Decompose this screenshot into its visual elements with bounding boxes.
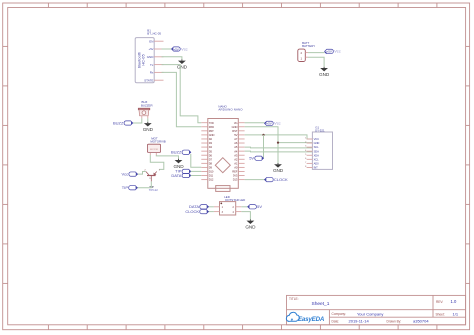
svg-text:GND: GND [143, 127, 154, 132]
svg-text:SDA: SDA [314, 149, 320, 153]
svg-text:6: 6 [305, 158, 306, 160]
svg-text:GND: GND [232, 125, 238, 129]
wire Vcc flag to transistor pin2 [138, 172, 146, 175]
svg-text:Date:: Date: [332, 319, 340, 323]
svg-text:STATE: STATE [144, 78, 153, 82]
svg-text:Rx: Rx [150, 71, 154, 75]
svg-text:5V: 5V [249, 156, 254, 161]
gyroscope module G1 GY-521 [305, 126, 332, 170]
net flag CLOCK at LED [185, 209, 208, 214]
pin stub 1 of buzzer [141, 116, 143, 119]
svg-text:1.0: 1.0 [451, 299, 457, 304]
pin stub Vin of Nano (right) [238, 122, 244, 124]
wire +5v pin to +5V flag [162, 48, 172, 50]
pin stub 1 of motor [149, 153, 151, 155]
pin stub D6 of Nano (left) [201, 154, 208, 156]
svg-text:RST: RST [209, 129, 214, 133]
svg-text:EN: EN [149, 39, 153, 43]
wire Nano A5 to GY-521 SCL [245, 146, 313, 149]
net flag 5V at LED [248, 204, 263, 209]
svg-text:Tx: Tx [150, 63, 154, 67]
svg-text:+5V: +5V [326, 50, 331, 54]
pin stub SCL of G1 [307, 146, 313, 148]
pin stub A4 of Nano (right) [238, 150, 244, 152]
svg-text:7: 7 [305, 162, 306, 164]
svg-text:GND: GND [245, 225, 256, 230]
wire buzzer pin2 to ground [147, 118, 149, 122]
wire LED pin4 to ground [241, 212, 250, 220]
svg-text:Sheet:: Sheet: [436, 312, 445, 316]
bluetooth module B1 BT_HC-05 [135, 29, 163, 83]
net flag +5V (Vcc) at Nano Vin [265, 121, 281, 126]
ground at B1 [177, 59, 188, 69]
wire BUZZ flag to Nano D9 [191, 154, 202, 167]
svg-text:8: 8 [305, 166, 306, 168]
pin stub 4 of LED [236, 211, 242, 213]
svg-text:3: 3 [305, 146, 306, 148]
svg-text:Drawn By:: Drawn By: [387, 319, 402, 323]
wire DATA flag to Nano D11 [191, 175, 202, 177]
pin stub Rx of B1 [154, 71, 163, 73]
svg-text:BUZZ: BUZZ [113, 120, 124, 125]
svg-text:INT: INT [314, 166, 318, 170]
pin stub D13 of Nano (right) [238, 179, 244, 181]
EasyEDA logo [286, 312, 324, 323]
svg-text:BUZZER: BUZZER [141, 103, 153, 107]
pin stub A3 of Nano (right) [238, 154, 244, 156]
pin stub RST of Nano (left) [201, 130, 208, 132]
ground at Nano [273, 163, 284, 173]
wire junction down to 5V flag [263, 135, 265, 158]
wire Nano A4 to GY-521 SDA [245, 150, 313, 153]
wire battery pin1 to ground [308, 57, 324, 67]
wire Tx of B1 to TXD of Nano [162, 65, 202, 123]
ground at motor [173, 159, 184, 169]
svg-text:+5V: +5V [266, 122, 271, 126]
svg-text:XCL: XCL [314, 157, 320, 161]
svg-text:REV:: REV: [436, 300, 443, 304]
svg-text:GND: GND [147, 55, 155, 59]
svg-text:Vin: Vin [234, 121, 238, 125]
wire DATA flag to LED pin1 [209, 206, 214, 208]
Nano diamond mark [215, 158, 230, 173]
svg-text:GND: GND [209, 133, 215, 137]
pin stub 5V of Nano (right) [238, 134, 244, 136]
svg-text:D11: D11 [209, 174, 214, 178]
pin stub D8 of Nano (left) [201, 162, 208, 164]
pin stub XCL of G1 [307, 158, 313, 160]
pin stub VCC of G1 [307, 138, 313, 140]
svg-text:RST: RST [232, 129, 237, 133]
svg-text:GND: GND [177, 65, 188, 70]
svg-text:TIP: TIP [122, 185, 129, 190]
wire GND pin of B1 to ground [162, 57, 182, 60]
svg-text:2: 2 [305, 142, 306, 144]
svg-text:EasyEDA: EasyEDA [298, 316, 325, 323]
pin stub SDA of G1 [307, 150, 313, 152]
pin stub A7 of Nano (right) [238, 138, 244, 140]
net flag BUZZ at buzzer [113, 120, 133, 125]
wire LED pin2 to 5V flag [241, 206, 247, 208]
net flag 5V at Nano [249, 156, 263, 161]
wire motor pin1 to transistor collector [150, 155, 164, 169]
pin stub 2 of battery [305, 52, 308, 54]
svg-text:Vcc: Vcc [334, 49, 341, 54]
svg-text:CLOCK: CLOCK [274, 177, 288, 182]
svg-text:RXD: RXD [209, 125, 214, 129]
svg-text:Company:: Company: [332, 312, 347, 316]
svg-text:5: 5 [305, 154, 306, 156]
pin stub D5 of Nano (left) [201, 150, 208, 152]
wire buzzer pin1 to BUZZ flag [133, 118, 142, 123]
svg-text:ARDUINO NANO: ARDUINO NANO [218, 107, 243, 111]
svg-text:AD0: AD0 [314, 161, 320, 165]
buzzer BUZ BUZZER [138, 100, 152, 118]
svg-text:4: 4 [305, 150, 306, 152]
junction at GND rail [277, 142, 279, 144]
svg-text:MOTOR: MOTOR [150, 149, 158, 151]
wire Nano D13 to CLOCK flag [245, 179, 265, 181]
pin stub +5v of B1 [154, 48, 163, 50]
pin stub 1 of LED [214, 206, 220, 208]
pin stub GND of B1 [154, 56, 163, 58]
pin stub 3 of LED [214, 211, 220, 213]
net flag +5V (Vcc) at B1 [172, 46, 188, 51]
svg-text:3V3: 3V3 [233, 174, 238, 178]
pin stub STATE of B1 [154, 79, 163, 81]
wire battery pin2 to Vcc flag [308, 52, 325, 54]
svg-text:Vcc: Vcc [122, 171, 129, 176]
pin stub GND of Nano (left) [201, 134, 208, 136]
pin stub A6 of Nano (right) [238, 142, 244, 144]
svg-text:GND: GND [319, 72, 330, 77]
pin stub EN of B1 [154, 40, 163, 42]
net flag DATA at Nano D11 [171, 173, 190, 178]
pin stub 2 of motor [155, 153, 157, 155]
pin stub D2 of Nano (left) [201, 138, 208, 140]
net flag BUZZ at Nano D9 [171, 150, 191, 155]
wire Nano GND to GY-521 GND and ground [245, 127, 313, 143]
svg-text:TXD: TXD [209, 121, 214, 125]
Arduino Nano NANO [201, 104, 244, 191]
svg-text:XDA: XDA [314, 153, 320, 157]
svg-text:BATTERY: BATTERY [302, 44, 315, 48]
battery BATT BATTERY [298, 41, 315, 61]
wire motor pin2 to ground [156, 155, 178, 159]
pin stub XDA of G1 [307, 154, 313, 156]
wire junction down to ground [277, 143, 279, 163]
net flag Vcc at transistor [122, 171, 138, 176]
ground at buzzer [143, 122, 154, 132]
pin stub 3V3 of Nano (right) [238, 175, 244, 177]
svg-text:D10: D10 [209, 170, 214, 174]
svg-text:BUZZ: BUZZ [171, 150, 182, 155]
pin stub GND of G1 [307, 142, 313, 144]
svg-text:BT_HC-05: BT_HC-05 [147, 32, 161, 36]
pin stub 1 of battery [305, 56, 308, 58]
pin stub 2 of LED [236, 206, 242, 208]
svg-text:TITLE:: TITLE: [289, 297, 299, 301]
svg-text:MOTORVIB: MOTORVIB [150, 139, 165, 143]
pin stub A0 of Nano (right) [238, 166, 244, 168]
svg-text:1/1: 1/1 [453, 312, 459, 317]
net flag CLOCK at Nano D13 [265, 177, 289, 182]
svg-text:1: 1 [305, 138, 306, 140]
pin stub AD0 of G1 [307, 162, 313, 164]
pin stub RXD of Nano (left) [201, 126, 208, 128]
net flag TIP at Nano D10 [175, 169, 191, 174]
svg-text:Sheet_1: Sheet_1 [312, 301, 330, 307]
svg-text:Your Company: Your Company [357, 312, 383, 317]
svg-text:TIP122: TIP122 [149, 188, 158, 192]
LED module LED DOTSTAR LED [214, 195, 245, 215]
wire Nano 5V to GY-521 VCC [245, 135, 313, 139]
motor MOT MOTORVIB [147, 136, 165, 155]
pin stub A2 of Nano (right) [238, 158, 244, 160]
svg-text:5V: 5V [257, 204, 262, 209]
pin stub TXD of Nano (left) [201, 122, 208, 124]
svg-text:SCL: SCL [314, 145, 320, 149]
wire transistor pin3 to TIP flag [137, 181, 151, 187]
svg-text:DATA: DATA [171, 173, 181, 178]
svg-text:Vcc: Vcc [181, 46, 188, 51]
pin stub D4 of Nano (left) [201, 146, 208, 148]
pin stub Tx of B1 [154, 64, 163, 66]
svg-text:VCC: VCC [314, 137, 320, 141]
net flag TIP at transistor [122, 185, 138, 190]
wire TIP flag to Nano D10 [191, 170, 202, 172]
svg-text:D13: D13 [233, 178, 238, 182]
svg-text:2019-11-14: 2019-11-14 [349, 319, 370, 324]
wire Rx of B1 to RXD of Nano [162, 72, 202, 126]
pin stub D11 of Nano (left) [201, 175, 208, 177]
pin stub INT of G1 [307, 166, 313, 168]
pin stub D7 of Nano (left) [201, 158, 208, 160]
pin stub D12 of Nano (left) [201, 179, 208, 181]
pin stub 2 of buzzer [147, 116, 149, 119]
svg-text:5V: 5V [234, 133, 237, 137]
ground at LED [245, 219, 256, 229]
title block [287, 295, 466, 324]
svg-text:CLOCK: CLOCK [185, 209, 199, 214]
wire Vin to Vcc flag [245, 122, 265, 124]
wire CLOCK flag to LED pin3 [209, 211, 214, 213]
transistor TIP TIP122 [144, 170, 160, 192]
svg-text:+5V: +5V [173, 47, 178, 51]
svg-text:a350704: a350704 [413, 319, 429, 324]
svg-text:Vcc: Vcc [274, 121, 281, 126]
svg-text:GND: GND [314, 141, 320, 145]
svg-text:GND: GND [273, 168, 284, 173]
svg-text:HC-05: HC-05 [141, 54, 146, 65]
pin stub D3 of Nano (left) [201, 142, 208, 144]
net flag DATA at LED [189, 204, 208, 209]
svg-text:D12: D12 [209, 178, 214, 182]
pin stub D9 of Nano (left) [201, 166, 208, 168]
pin stub A1 of Nano (right) [238, 162, 244, 164]
net flag +5V (Vcc) at battery [325, 49, 341, 54]
pin stub D10 of Nano (left) [201, 170, 208, 172]
pin stub REF of Nano (right) [238, 170, 244, 172]
pin stub A5 of Nano (right) [238, 146, 244, 148]
pin stub GND of Nano (right) [238, 126, 244, 128]
Nano usb connector mark [216, 186, 230, 192]
junction at 5V rail [262, 134, 264, 136]
ground at battery [319, 67, 330, 77]
svg-text:REF: REF [232, 170, 237, 174]
pin stub RST of Nano (right) [238, 130, 244, 132]
svg-text:+5v: +5v [148, 47, 153, 51]
